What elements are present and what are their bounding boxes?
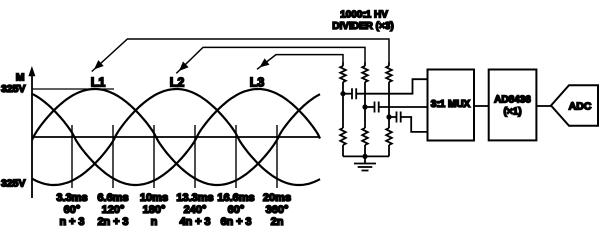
wire node3 to C3	[389, 116, 397, 118]
wire node1 to C1	[343, 93, 352, 95]
wire branch 1: node to lower resistor	[342, 94, 344, 128]
svg-text:2n ÷ 3: 2n ÷ 3	[97, 216, 128, 228]
3:1 MUX block	[428, 70, 475, 141]
svg-text:10ms: 10ms	[140, 192, 168, 204]
resistor R1b (lower divider resistor, branch 1)	[340, 128, 346, 145]
wire node2 to C2	[365, 106, 375, 108]
tick label 20ms 360° 2n	[263, 192, 291, 228]
wire branch 1: resistor top lead	[342, 62, 344, 66]
wire branch 3: resistor to node	[388, 82, 390, 117]
y-axis (amplitude axis M)	[28, 66, 35, 198]
resistor R2b (lower divider resistor, branch 2)	[362, 128, 368, 145]
wire branch 3: node to lower resistor	[388, 117, 390, 128]
svg-text:60°: 60°	[64, 204, 81, 216]
ground bus wire	[343, 155, 389, 157]
svg-text:325V: 325V	[1, 83, 26, 95]
svg-text:120°: 120°	[102, 204, 125, 216]
resistor R3b (lower divider resistor, branch 3)	[386, 128, 392, 145]
svg-text:L3: L3	[250, 76, 265, 90]
label 1000:1 HV DIVIDER (x3)	[332, 10, 393, 33]
svg-text:n: n	[151, 216, 158, 228]
tick mark at 6.6ms	[112, 125, 114, 188]
resistor R1a (upper divider resistor, branch 1)	[340, 66, 346, 82]
wire leader from divider branch 2 to L2, with arrowhead	[176, 47, 365, 73]
svg-text:240°: 240°	[184, 204, 207, 216]
svg-text:L1: L1	[91, 76, 106, 90]
svg-text:3:1 MUX: 3:1 MUX	[431, 99, 471, 110]
tick mark at 3.3ms	[71, 125, 73, 188]
node junction branch 3	[386, 114, 391, 119]
node junction branch 1	[340, 91, 345, 96]
tick label 16.6ms 60° 6n ÷ 3	[217, 192, 254, 228]
svg-text:13.3ms: 13.3ms	[176, 192, 213, 204]
wire leader from divider branch 3 to L1, with arrowhead	[92, 39, 389, 72]
svg-text:6.6ms: 6.6ms	[97, 192, 128, 204]
svg-text:ADC: ADC	[569, 101, 592, 113]
capacitor C2 (branch 2 coupling cap)	[375, 102, 379, 113]
svg-text:L2: L2	[170, 76, 185, 90]
wire AD8436 to ADC	[536, 105, 551, 107]
wire leader from divider branch 1 to L3, with arrowhead	[257, 55, 343, 70]
tick label 10ms 180° n	[140, 192, 168, 228]
svg-text:180°: 180°	[143, 204, 166, 216]
wire branch 2: resistor to ground bus	[364, 145, 366, 156]
tick mark at 16.6ms	[235, 125, 237, 188]
svg-text:20ms: 20ms	[263, 192, 291, 204]
tick mark at 13.3ms	[194, 125, 196, 188]
ADC block (pentagon)	[551, 85, 598, 126]
svg-text:M: M	[16, 72, 25, 84]
svg-text:325V: 325V	[1, 177, 26, 189]
peak reference line (+325V)	[32, 88, 114, 90]
wire branch 2: resistor top lead	[364, 62, 366, 66]
svg-text:n ÷ 3: n ÷ 3	[60, 216, 85, 228]
junction dot on ground bus	[362, 154, 367, 159]
resistor R3a (upper divider resistor, branch 3)	[386, 66, 392, 82]
waveform L1 sine curve	[32, 89, 320, 185]
wire branch 1: resistor to ground bus	[342, 145, 344, 156]
tick mark at 20ms	[276, 125, 278, 188]
x-axis (time axis)	[32, 136, 320, 138]
svg-text:360°: 360°	[266, 204, 289, 216]
wire C3 to MUX input 3	[401, 117, 428, 132]
wire MUX output to AD8436	[474, 105, 489, 107]
svg-text:(×1): (×1)	[503, 107, 521, 118]
wire C2 to MUX input 2	[379, 106, 428, 108]
svg-text:3.3ms: 3.3ms	[56, 192, 87, 204]
tick label 3.3ms 60° n ÷ 3	[56, 192, 87, 228]
svg-text:16.6ms: 16.6ms	[217, 192, 254, 204]
svg-text:6n ÷ 3: 6n ÷ 3	[220, 216, 251, 228]
tick mark at 10ms	[153, 125, 155, 188]
wire branch 3: resistor to ground bus	[388, 145, 390, 156]
svg-text:AD8436: AD8436	[494, 95, 531, 106]
AD8436 block	[489, 70, 537, 141]
capacitor C1 (branch 1 coupling cap)	[352, 88, 356, 99]
wire branch 2: resistor to node	[364, 82, 366, 107]
svg-text:4n ÷ 3: 4n ÷ 3	[179, 216, 210, 228]
waveform L3 sine curve	[32, 89, 320, 185]
wire C1 to MUX input 1	[356, 79, 427, 94]
ground symbol	[354, 156, 376, 170]
node junction branch 2	[362, 104, 367, 109]
tick label 13.3ms 240° 4n ÷ 3	[176, 192, 213, 228]
waveform L2 sine curve	[32, 89, 320, 185]
tick label 6.6ms 120° 2n ÷ 3	[97, 192, 128, 228]
resistor R2a (upper divider resistor, branch 2)	[362, 66, 368, 82]
svg-text:DIVIDER (×3): DIVIDER (×3)	[332, 21, 393, 32]
wire branch 1: resistor to node	[342, 82, 344, 94]
svg-text:60°: 60°	[228, 204, 245, 216]
wire branch 2: node to lower resistor	[364, 107, 366, 128]
wire branch 3: resistor top lead	[388, 62, 390, 66]
svg-text:1000:1 HV: 1000:1 HV	[340, 10, 388, 21]
svg-text:2n: 2n	[271, 216, 284, 228]
capacitor C3 (branch 3 coupling cap)	[397, 112, 401, 123]
